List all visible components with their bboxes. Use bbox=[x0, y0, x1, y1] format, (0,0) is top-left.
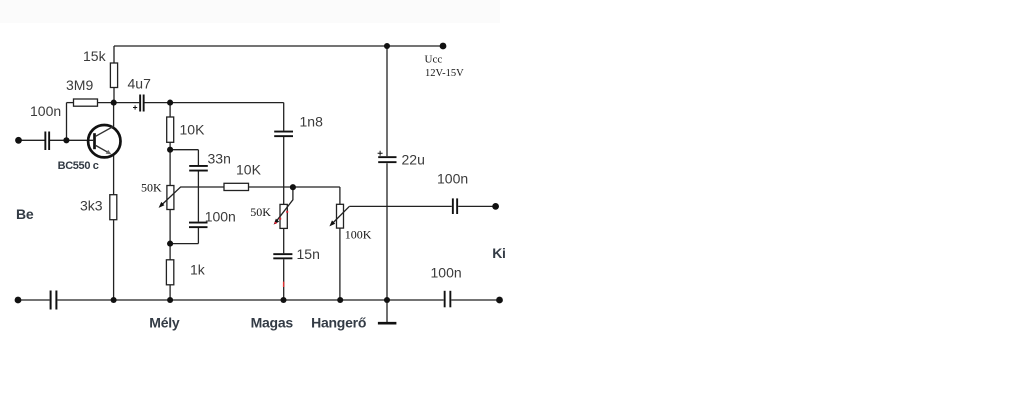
svg-text:100n: 100n bbox=[437, 170, 468, 186]
svg-text:33n: 33n bbox=[208, 151, 231, 167]
svg-text:1n8: 1n8 bbox=[300, 114, 324, 130]
svg-text:10K: 10K bbox=[180, 122, 206, 138]
svg-text:Be: Be bbox=[16, 206, 34, 222]
svg-text:Ucc: Ucc bbox=[425, 54, 443, 66]
svg-text:15n: 15n bbox=[297, 246, 320, 262]
svg-text:Ki: Ki bbox=[492, 245, 506, 261]
svg-text:22u: 22u bbox=[402, 152, 425, 168]
svg-text:1k: 1k bbox=[190, 262, 206, 278]
svg-text:50K: 50K bbox=[141, 181, 162, 195]
svg-text:3k3: 3k3 bbox=[80, 198, 103, 214]
svg-text:Magas: Magas bbox=[251, 314, 294, 330]
svg-text:10K: 10K bbox=[236, 162, 262, 178]
svg-text:BC550 c: BC550 c bbox=[58, 160, 99, 172]
svg-text:3M9: 3M9 bbox=[66, 77, 93, 93]
svg-text:50K: 50K bbox=[250, 205, 271, 219]
svg-text:12V-15V: 12V-15V bbox=[425, 68, 464, 79]
svg-text:15k: 15k bbox=[83, 48, 107, 64]
svg-text:100n: 100n bbox=[431, 264, 462, 280]
svg-text:4u7: 4u7 bbox=[128, 76, 152, 92]
svg-text:100n: 100n bbox=[205, 209, 236, 225]
svg-text:100n: 100n bbox=[30, 103, 61, 119]
svg-text:Hangerő: Hangerő bbox=[311, 314, 366, 330]
svg-text:Mély: Mély bbox=[149, 315, 180, 331]
svg-text:100K: 100K bbox=[345, 228, 372, 242]
